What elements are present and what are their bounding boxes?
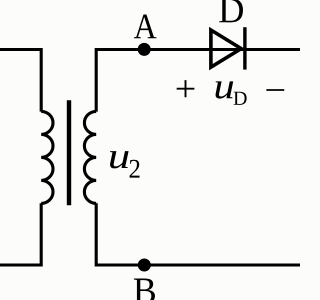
wire primary bottom left corner: [0, 203, 41, 265]
label minus polarity: [266, 89, 284, 91]
transformer secondary winding: [84, 111, 96, 203]
label D: [219, 0, 243, 22]
diode D cathode bar: [243, 27, 246, 69]
label A: [134, 15, 157, 39]
node A junction dot: [138, 43, 151, 56]
transformer primary winding: [41, 111, 53, 203]
label uD voltage: [216, 81, 234, 98]
label u2 subscript: [130, 160, 140, 178]
wire secondary bottom to right edge: [96, 203, 300, 265]
node B junction dot: [138, 259, 151, 272]
transformer core: [67, 100, 71, 205]
wire secondary top to right edge: [96, 50, 300, 112]
diode D triangle: [211, 30, 241, 67]
label uD subscript: [234, 92, 247, 105]
label plus polarity: [177, 80, 195, 97]
label u2 voltage: [110, 151, 129, 168]
label B: [134, 279, 155, 300]
wire top-left primary feed with corner down: [0, 50, 41, 112]
